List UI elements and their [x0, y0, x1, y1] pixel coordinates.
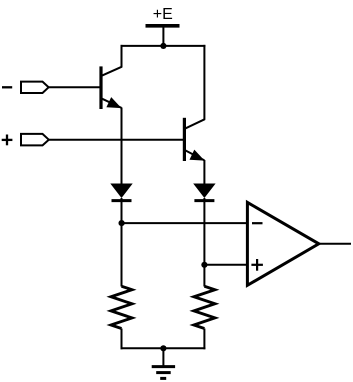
diode D2: [193, 184, 215, 201]
op-amp U1 inverting input label: [252, 222, 263, 224]
wire D2 cathode to node B: [203, 198, 205, 265]
svg-text:+E: +E: [153, 6, 173, 23]
transistor Q1 emitter lead with arrow (NPN): [101, 97, 121, 108]
wire Q1 emitter down to diode D1: [121, 108, 123, 186]
transistor Q2 emitter lead with arrow (NPN): [185, 150, 205, 161]
wire op-amp output: [319, 243, 351, 245]
diode D1: [110, 184, 132, 201]
junction dot node B: [201, 262, 207, 268]
wire Q2 collector vertical: [203, 45, 205, 120]
wire bottom rail: [121, 347, 206, 349]
input terminal minus label: [2, 86, 12, 88]
wire node A down to resistor R1: [121, 223, 123, 286]
resistor R2: [194, 286, 215, 328]
wire R1 to bottom rail: [121, 329, 123, 350]
junction dot node A: [119, 220, 125, 226]
junction dot ground node: [160, 345, 166, 351]
junction dot top node: [160, 43, 166, 49]
transistor Q1 base bar: [99, 66, 102, 109]
ground: [152, 367, 175, 379]
wire from +E bar to node: [162, 27, 164, 46]
wire minus input to Q1 base: [49, 86, 101, 88]
wire plus input to Q2 base: [49, 139, 185, 141]
input terminal plus flag: [21, 134, 49, 146]
transistor Q2 collector lead: [185, 119, 205, 129]
wire top rail: [121, 45, 206, 47]
op-amp U1: [247, 202, 318, 285]
transistor Q1 collector lead: [101, 67, 122, 76]
transistor Q2 base bar: [183, 118, 186, 161]
input terminal plus label: [2, 135, 13, 146]
wire Q2 emitter down to diode D2: [203, 160, 205, 185]
wire node B down to resistor R2: [203, 265, 205, 287]
op-amp U1 non-inverting input label: [251, 259, 263, 271]
wire Q1 collector vertical: [121, 45, 123, 68]
wire ground stub: [162, 348, 164, 366]
wire D1 cathode to node A: [121, 198, 123, 223]
input terminal minus flag: [21, 82, 49, 93]
wire node A to op-amp inverting input: [122, 222, 248, 224]
power rail bar +E: [146, 24, 180, 28]
wire R2 to bottom rail: [203, 329, 205, 350]
wire node B to op-amp non-inverting input: [204, 264, 248, 266]
label +E: [153, 6, 173, 23]
resistor R1: [111, 286, 132, 328]
